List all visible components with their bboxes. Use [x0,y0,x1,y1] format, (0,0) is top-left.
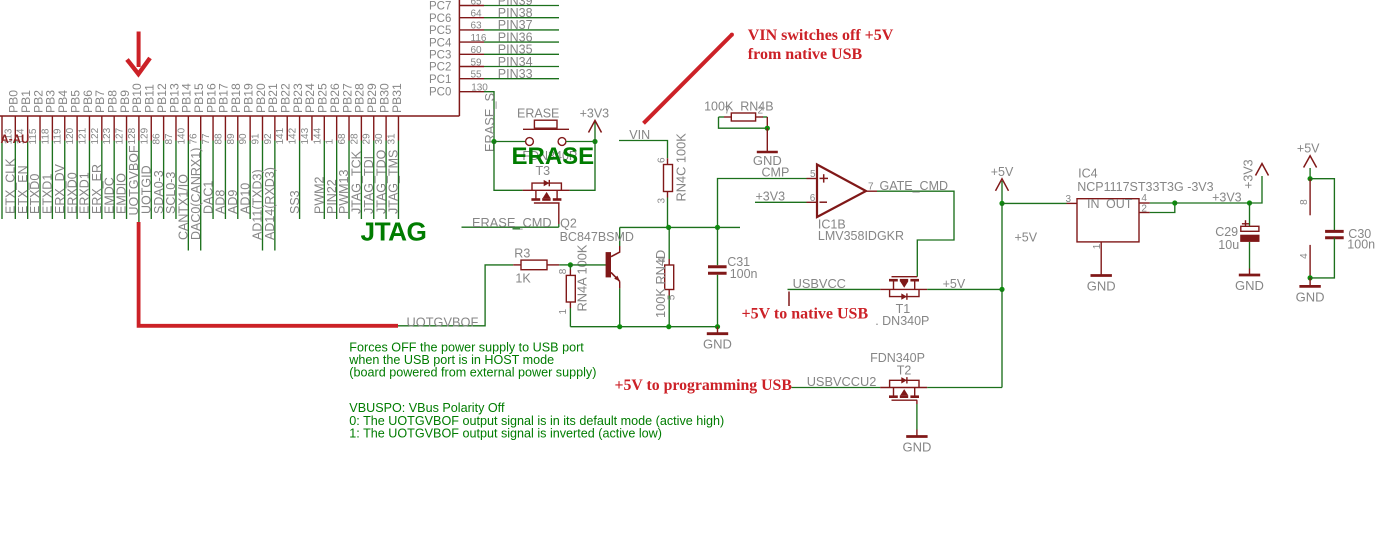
svg-text:4: 4 [1299,253,1310,259]
svg-text:A-AU: A-AU [1,134,30,146]
junction node RN4C / RN4D / CMP rail [666,225,671,230]
partial pin at left edge (cropped) [1,116,3,141]
svg-text:77: 77 [201,133,212,145]
svg-text:118: 118 [40,128,51,144]
wire net UOTGVBOF to R3 [398,265,513,326]
wire net ERASE_CMD [462,226,559,228]
power symbol +5V above node [1001,181,1003,203]
junction node C31 / CMP rail [715,225,720,230]
junction node C31 / GND [715,324,720,329]
red annotation line from UOTGVBOF pin to label [139,222,398,326]
pushbutton switch ERASE [494,141,526,143]
svg-text:87: 87 [164,133,175,145]
wire net +3V3 stub to op-amp -input [755,201,807,203]
svg-text:USBVCCU2: USBVCCU2 [807,374,877,389]
svg-text:PC6: PC6 [429,13,451,25]
svg-text:122: 122 [90,127,101,144]
voltage regulator IC4 NCP1117ST33T3G -3V3 [1067,202,1078,204]
svg-text:90: 90 [238,133,249,145]
svg-text:127: 127 [115,127,126,144]
T2 gate wire to ground [916,400,918,404]
svg-text:10u: 10u [1218,238,1239,252]
wire GND rail below Q2 / RN4D / C31 [570,326,717,328]
svg-text:PB31: PB31 [390,83,404,113]
wire net VIN [619,141,668,159]
svg-text:PC5: PC5 [429,25,451,37]
junction node RN4D / rail [666,324,671,329]
svg-text:GND: GND [1296,289,1325,304]
red pointer line from +5V-to-native-USB text to USBVCC wire [788,292,790,307]
wire net GATE_CMD from op-amp output to T1 gate [877,191,954,270]
svg-text:GND: GND [1087,279,1116,294]
svg-text:6: 6 [810,193,816,204]
svg-text:GND: GND [703,337,732,352]
svg-text:76: 76 [189,133,200,145]
junction node +5V / IC4 input [999,201,1004,206]
svg-text:GND: GND [1235,278,1264,293]
svg-text:121: 121 [77,127,88,144]
junction node +5V / T1 [999,287,1004,292]
svg-text:1: 1 [1092,243,1103,249]
svg-text:RN4A 100K: RN4A 100K [575,244,590,311]
svg-text:AD14(RXD3): AD14(RXD3) [263,167,277,240]
transistor T1 DN340P (P-MOSFET) [916,270,918,277]
svg-text:RN4C 100K: RN4C 100K [674,133,689,202]
svg-text:8: 8 [558,268,569,274]
transistor Q2 BC847BSMD (NPN) [570,264,606,266]
ground symbol GND below RN4B [766,128,768,152]
svg-text:JTAG: JTAG [361,217,427,247]
svg-text:+3V3: +3V3 [1212,190,1242,204]
svg-text:ERASE: ERASE [517,107,559,121]
svg-text:+3V3: +3V3 [756,190,786,204]
IC body outline (SAM3X) bottom and right edges [0,115,459,117]
capacitor C30 100n [1310,179,1334,231]
wire net USBVCC [788,288,881,290]
svg-text:65: 65 [471,0,483,7]
ground symbol GND of rail [717,327,719,334]
svg-text:68: 68 [337,133,348,145]
svg-text:91: 91 [251,133,262,145]
capacitor C29 10u (polarized) [1249,203,1251,226]
red diagonal annotation line at VIN [644,35,732,124]
svg-text:CMP: CMP [762,165,790,179]
svg-text:140: 140 [176,127,187,144]
red arrow pointing at PB10 [137,32,141,68]
svg-text:3: 3 [657,198,668,204]
wire net ERASE_S vertical to switch [491,139,496,144]
svg-text:100K RN4B: 100K RN4B [704,99,773,113]
ground symbol GND below IC4 [1100,269,1102,276]
svg-text:6: 6 [657,157,668,163]
svg-text:123: 123 [102,127,113,144]
svg-text:PC2: PC2 [429,62,451,74]
svg-text:60: 60 [471,45,483,56]
svg-text:Q2: Q2 [560,216,577,230]
svg-text:120: 120 [65,127,76,144]
svg-text:129: 129 [139,127,150,144]
wire from T1 to +5V node [927,288,1002,290]
svg-text:64: 64 [471,9,483,20]
junction node IC1 pin 8 / C30 top [1308,176,1313,181]
svg-text:63: 63 [471,21,483,32]
resistor RN4B 100K tied to GND [724,116,731,118]
svg-text:JTAG_TMS: JTAG_TMS [387,150,401,214]
svg-text:88: 88 [213,133,224,145]
svg-text:+5V to native USB: +5V to native USB [742,306,869,323]
wire +3V3 up to power arrow [1250,176,1263,203]
svg-text:29: 29 [362,133,373,145]
svg-text:PC7: PC7 [429,1,451,13]
svg-text:UOTGVBOF: UOTGVBOF [407,314,479,329]
svg-text:115: 115 [28,128,39,144]
svg-text:100n: 100n [1347,238,1375,252]
ground symbol GND below IC1 power pins [1309,278,1311,287]
IC1 power pin 8 [1309,179,1311,216]
svg-text:+5V: +5V [991,165,1014,179]
svg-text:PC3: PC3 [429,50,451,62]
svg-text:31: 31 [386,133,397,145]
svg-text:143: 143 [300,127,311,144]
transistor T3 FDN340P (P-MOSFET) [523,189,570,191]
wire from +3V3 node down to T3 right [570,142,595,191]
svg-text:VIN: VIN [629,128,650,142]
ground symbol GND below T2 [916,430,918,437]
resistor RN4C 100K [667,158,669,164]
svg-text:IC4: IC4 [1078,167,1098,181]
resistor RN4D 100K [668,227,670,259]
svg-text:+5V: +5V [1297,141,1320,155]
svg-text:1: 1 [325,139,336,145]
svg-text:55: 55 [471,70,483,81]
wire from switch down to T3 left [494,142,523,191]
svg-text:1: 1 [558,309,569,315]
svg-text:T2: T2 [897,364,912,378]
svg-text:141: 141 [275,127,286,144]
svg-text:119: 119 [53,128,64,144]
svg-text:1: The UOTGVBOF output signal: 1: The UOTGVBOF output signal is inverte… [349,427,662,441]
svg-text:from native USB: from native USB [748,46,863,63]
svg-text:USBVCC: USBVCC [793,276,846,291]
svg-text:GATE_CMD: GATE_CMD [880,179,949,193]
svg-text:144: 144 [312,127,323,144]
svg-text:100K RN4D: 100K RN4D [653,250,668,318]
svg-text:89: 89 [226,133,237,145]
svg-text:. DN340P: . DN340P [875,314,929,328]
svg-text:PC0: PC0 [429,87,451,99]
svg-text:2: 2 [758,106,764,117]
power symbol +3V3 at erase switch [594,122,596,142]
svg-text:LMV358IDGKR: LMV358IDGKR [818,229,904,243]
svg-text:100n: 100n [730,267,758,281]
resistor R3 1K [513,264,521,266]
capacitor C31 100n [717,227,719,265]
svg-text:+5V: +5V [1015,230,1038,244]
power symbol +3V3 (rotated label) [1256,164,1269,176]
svg-text:30: 30 [374,133,385,145]
svg-text:8: 8 [1299,199,1310,205]
op-amp IC1B LMV358IDGKR [817,165,866,218]
junction node IC1 pin 4 / C30 bottom / GND [1308,275,1313,280]
svg-text:SS3: SS3 [288,190,302,214]
svg-text:PC1: PC1 [429,74,451,86]
junction node +3V3 / C29 [1247,200,1252,205]
IC1 power pin 4 [1309,245,1311,278]
svg-text:ERASE_CMD: ERASE_CMD [472,215,552,230]
svg-text:BC847BSMD: BC847BSMD [560,230,634,244]
svg-text:142: 142 [288,127,299,144]
svg-text:7: 7 [868,182,874,193]
svg-text:86: 86 [152,133,163,145]
wire from +5V node to IC4 IN [1002,202,1067,204]
svg-text:R3: R3 [514,247,530,261]
wire net +3V3 from IC4 to C29 node [1175,202,1250,204]
transistor T2 FDN340P (P-MOSFET, mirrored) [880,387,927,389]
svg-text:GND: GND [902,440,931,455]
junction node R3 / RN4A / Q2 base [568,262,573,267]
svg-text:59: 59 [471,57,483,68]
svg-text:PIN33: PIN33 [498,67,533,81]
svg-text:3: 3 [1066,194,1072,205]
svg-text:+3V3: +3V3 [580,106,610,120]
svg-text:IN: IN [1087,197,1100,211]
svg-text:5: 5 [810,169,816,180]
svg-text:VIN switches off +5V: VIN switches off +5V [748,27,894,44]
resistor RN4A 100K [569,265,571,270]
svg-text:128: 128 [127,127,138,144]
svg-text:PC4: PC4 [429,37,452,49]
wire net USBVCCU2 [792,387,881,389]
IC4 output pins 4 and 2 wires [1139,202,1150,204]
svg-text:28: 28 [349,133,360,145]
ground symbol GND below C29 [1249,269,1251,276]
svg-text:OUT: OUT [1106,197,1133,211]
junction node IC4 outputs [1172,200,1177,205]
svg-text:(board powered from external p: (board powered from external power suppl… [349,366,596,380]
IC4 pin 1 to ground [1100,242,1102,269]
svg-text:7: 7 [725,106,731,117]
junction node Q2 emitter / rail [617,324,622,329]
junction node RN4B / GND [765,126,770,131]
T3 gate wire down to ERASE_CMD [558,203,560,224]
svg-text:NCP1117ST33T3G -3V3: NCP1117ST33T3G -3V3 [1077,180,1213,194]
wire net CMP from Q2 collector rail to op-amp +input [620,226,740,228]
wire from T2 right to +5V vertical [927,387,1002,389]
junction node ERASE switch right / +3V3 [592,139,597,144]
svg-text:+5V to programming USB: +5V to programming USB [615,377,793,394]
svg-text:+3V3: +3V3 [1242,159,1256,189]
wire +5V vertical [1001,203,1003,289]
svg-text:5: 5 [667,294,678,300]
svg-text:92: 92 [263,133,274,145]
svg-text:+5V: +5V [943,277,966,291]
svg-text:ERASE: ERASE [512,143,595,170]
svg-text:1K: 1K [515,272,531,286]
